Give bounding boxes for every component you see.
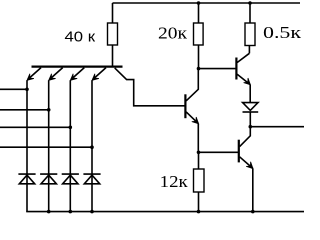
wire R3 top <box>249 3 251 23</box>
V1 emitter 4 <box>93 68 106 80</box>
input column 4 wire <box>91 80 93 211</box>
node dot input 1 <box>25 88 29 92</box>
wire R1 top <box>112 3 114 23</box>
V3 emitter arrow <box>244 78 251 85</box>
diode VD1 triangle <box>19 175 34 184</box>
input line 3 <box>0 126 70 128</box>
junction dot rail c4 <box>90 210 94 214</box>
node dot V2 emitter <box>197 151 201 155</box>
junction dot top rail R2 <box>197 1 201 5</box>
V2 collector diagonal <box>186 69 198 101</box>
wire 12k bottom <box>198 192 200 212</box>
diode VD3 cathode bar <box>62 173 79 175</box>
V1 emitter 3 arrow <box>70 74 77 81</box>
node dot output <box>249 125 253 129</box>
V1 emitter 3 <box>71 68 84 80</box>
svg-text:0.5к: 0.5к <box>263 23 302 42</box>
V2 emitter wire down <box>197 124 199 153</box>
node dot input 2 <box>47 108 51 112</box>
V3 emitter wire to diode <box>249 85 251 103</box>
V4 emitter diagonal <box>240 157 253 169</box>
resistor R4 12k body <box>194 169 205 192</box>
svg-text:12к: 12к <box>160 172 189 191</box>
input line 2 <box>0 109 49 111</box>
wire R3 bottom <box>248 46 250 54</box>
V4 collector wire <box>240 127 251 147</box>
junction dot rail V4 <box>251 210 255 214</box>
V1 emitter 1 <box>28 68 41 80</box>
V1 emitter 2 <box>49 68 62 80</box>
ground bottom rail <box>26 211 304 213</box>
wire node to V3 base <box>199 68 236 70</box>
diode VD5 triangle <box>243 103 258 111</box>
diode VD5 cathode bar <box>243 111 259 113</box>
svg-text:40 к: 40 к <box>65 29 96 46</box>
wire 12k top <box>198 152 200 169</box>
transistor V4 base bar <box>238 140 240 163</box>
diode VD2 cathode bar <box>40 173 57 175</box>
wire VD5 to output node <box>249 112 251 127</box>
V2 emitter diagonal <box>186 112 198 124</box>
V1 emitter 1 arrow <box>27 74 34 81</box>
V3 emitter diagonal <box>237 74 250 84</box>
input column 2 wire <box>48 80 50 211</box>
diode VD1 cathode bar <box>18 173 35 175</box>
diode VD3 triangle <box>63 175 78 184</box>
junction dot top rail R3 <box>248 1 252 5</box>
transistor V3 base bar <box>235 58 237 80</box>
input column 1 wire <box>26 80 28 211</box>
diode VD4 triangle <box>84 175 99 184</box>
VCC top rail <box>113 2 301 4</box>
junction dot rail c3 <box>69 210 73 214</box>
diode VD2 triangle <box>41 175 56 184</box>
wire R2 top <box>198 3 200 23</box>
junction dot rail c2 <box>47 210 51 214</box>
V1 emitter 4 arrow <box>92 74 99 81</box>
V4 emitter arrow <box>246 162 253 169</box>
svg-text:20к: 20к <box>158 24 188 43</box>
input line 1 <box>0 88 27 90</box>
wire R2 bottom to node <box>198 45 200 69</box>
output line <box>250 126 304 128</box>
transistor V1 base bar <box>32 65 123 67</box>
resistor R3 0.5k body <box>245 23 255 46</box>
diode VD4 cathode bar <box>83 173 100 175</box>
input line 4 <box>0 146 92 148</box>
V1 collector wire to V2 base <box>115 68 185 106</box>
V4 emitter wire down <box>252 168 254 211</box>
V1 emitter 2 arrow <box>49 74 56 81</box>
transistor V2 base bar <box>184 94 186 118</box>
V3 collector diagonal <box>237 53 249 62</box>
node dot V2 collector <box>197 67 201 71</box>
resistor R2 20k body <box>194 23 204 45</box>
wire node to V4 base <box>199 151 239 153</box>
resistor R1 40k body <box>108 23 118 45</box>
wire R1 bottom to V1 base <box>112 45 114 66</box>
node dot input 3 <box>69 126 73 130</box>
junction dot rail 12k <box>197 210 201 214</box>
V2 emitter arrow <box>192 117 199 124</box>
node dot input 4 <box>90 145 94 149</box>
input column 3 wire <box>69 80 71 211</box>
